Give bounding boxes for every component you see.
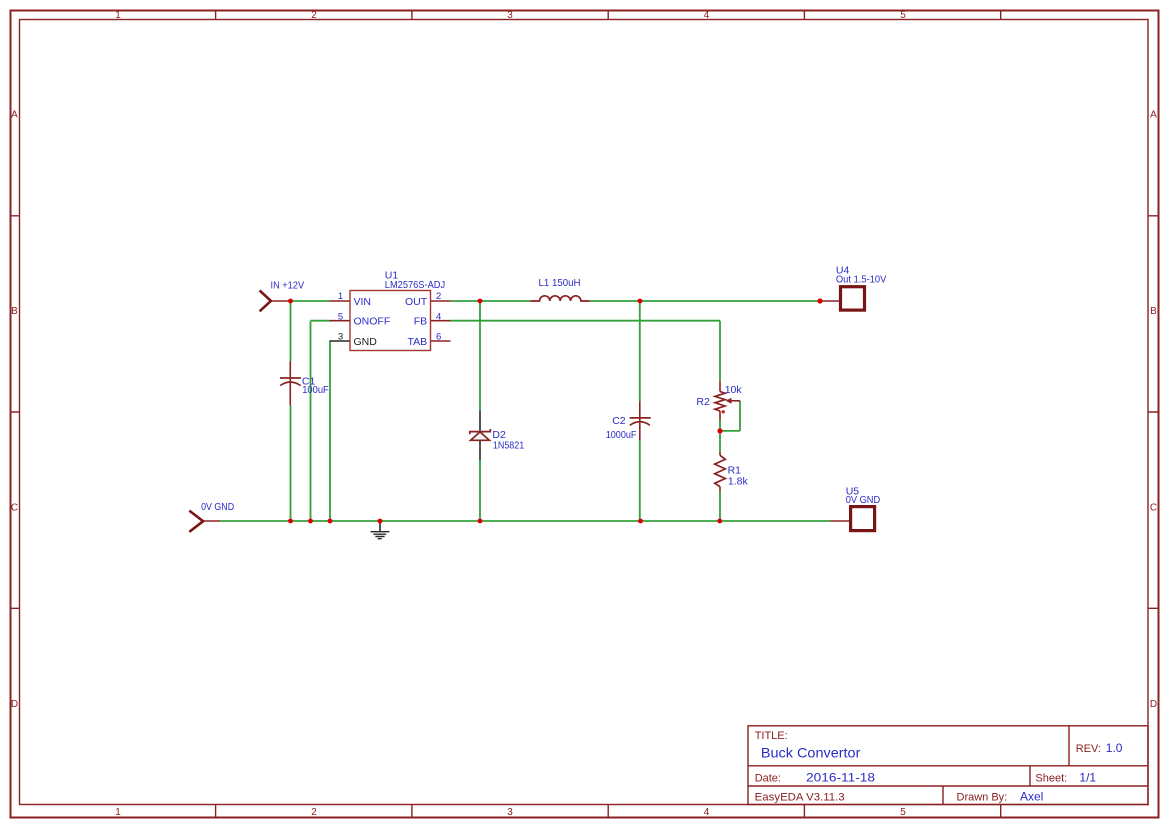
svg-text:1N5821: 1N5821 [493, 440, 524, 452]
svg-text:1.8k: 1.8k [728, 475, 749, 487]
svg-text:1: 1 [338, 291, 343, 302]
svg-text:4: 4 [436, 312, 441, 323]
svg-text:4: 4 [704, 10, 710, 21]
svg-text:5: 5 [900, 10, 906, 21]
svg-text:1/1: 1/1 [1079, 770, 1096, 784]
svg-text:1000uF: 1000uF [606, 429, 637, 441]
svg-text:0V GND: 0V GND [846, 494, 881, 506]
svg-text:C: C [11, 503, 18, 514]
svg-text:100uF: 100uF [302, 384, 329, 396]
svg-text:5: 5 [900, 807, 906, 818]
svg-text:Buck Convertor: Buck Convertor [761, 745, 861, 761]
svg-text:A: A [11, 110, 18, 121]
svg-text:1: 1 [115, 10, 121, 21]
svg-text:2: 2 [436, 291, 441, 302]
svg-text:C2: C2 [612, 415, 626, 427]
svg-text:B: B [11, 306, 18, 317]
svg-text:Drawn By:: Drawn By: [957, 792, 1008, 804]
svg-text:ONOFF: ONOFF [354, 316, 391, 328]
svg-text:TAB: TAB [408, 336, 428, 348]
svg-text:Date:: Date: [755, 772, 781, 784]
svg-text:Axel: Axel [1020, 789, 1043, 803]
svg-text:1: 1 [115, 807, 121, 818]
svg-text:Out 1.5-10V: Out 1.5-10V [836, 274, 887, 286]
svg-text:D: D [1150, 699, 1157, 710]
svg-text:L1 150uH: L1 150uH [539, 277, 581, 289]
svg-text:C: C [1150, 503, 1157, 514]
svg-text:TITLE:: TITLE: [755, 730, 788, 742]
svg-text:EasyEDA V3.11.3: EasyEDA V3.11.3 [755, 792, 845, 804]
svg-text:LM2576S-ADJ: LM2576S-ADJ [385, 279, 445, 291]
svg-text:1.0: 1.0 [1106, 741, 1123, 755]
svg-text:VIN: VIN [354, 296, 372, 308]
svg-text:3: 3 [507, 10, 513, 21]
svg-text:D: D [11, 699, 18, 710]
svg-text:5: 5 [338, 312, 343, 323]
svg-text:GND: GND [354, 336, 378, 348]
svg-text:REV:: REV: [1076, 743, 1101, 755]
svg-text:10k: 10k [725, 384, 743, 396]
svg-text:Sheet:: Sheet: [1035, 772, 1067, 784]
svg-text:IN +12V: IN +12V [271, 279, 305, 291]
svg-text:OUT: OUT [405, 296, 428, 308]
svg-text:3: 3 [507, 807, 513, 818]
svg-text:FB: FB [414, 316, 427, 328]
svg-text:0V GND: 0V GND [201, 501, 234, 513]
svg-text:2016-11-18: 2016-11-18 [806, 770, 875, 784]
svg-text:3: 3 [338, 331, 343, 342]
svg-text:B: B [1150, 306, 1157, 317]
svg-text:2: 2 [311, 10, 317, 21]
svg-text:R2: R2 [696, 396, 710, 408]
svg-text:A: A [1150, 110, 1157, 121]
svg-text:4: 4 [704, 807, 710, 818]
svg-text:6: 6 [436, 331, 441, 342]
svg-text:2: 2 [311, 807, 317, 818]
